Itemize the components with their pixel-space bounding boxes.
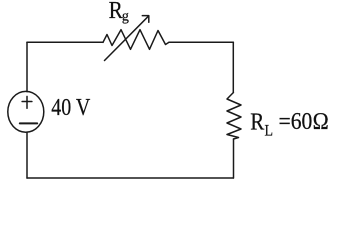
resistor Rg zigzag (103, 30, 169, 50)
svg-text:R: R (250, 110, 264, 136)
wire top-right horizontal (169, 41, 233, 43)
svg-text:R: R (109, 0, 123, 24)
svg-text:=60Ω: =60Ω (279, 109, 330, 135)
wire top-left horizontal (27, 41, 103, 43)
svg-text:g: g (122, 8, 129, 24)
voltage source plus sign (22, 101, 32, 103)
wire right lower vertical (233, 139, 235, 178)
voltage source V1 circle (8, 91, 44, 132)
wire left upper vertical (26, 42, 28, 91)
voltage source minus sign (20, 122, 37, 124)
wire bottom horizontal (27, 177, 233, 179)
resistor RL zigzag (227, 93, 241, 140)
wire right upper vertical (232, 42, 234, 92)
resistor Rg arrow shaft (105, 16, 149, 60)
wire left lower vertical (26, 132, 28, 178)
resistor Rg arrow head (142, 16, 149, 23)
svg-text:40 V: 40 V (51, 95, 91, 121)
svg-text:L: L (265, 122, 274, 139)
